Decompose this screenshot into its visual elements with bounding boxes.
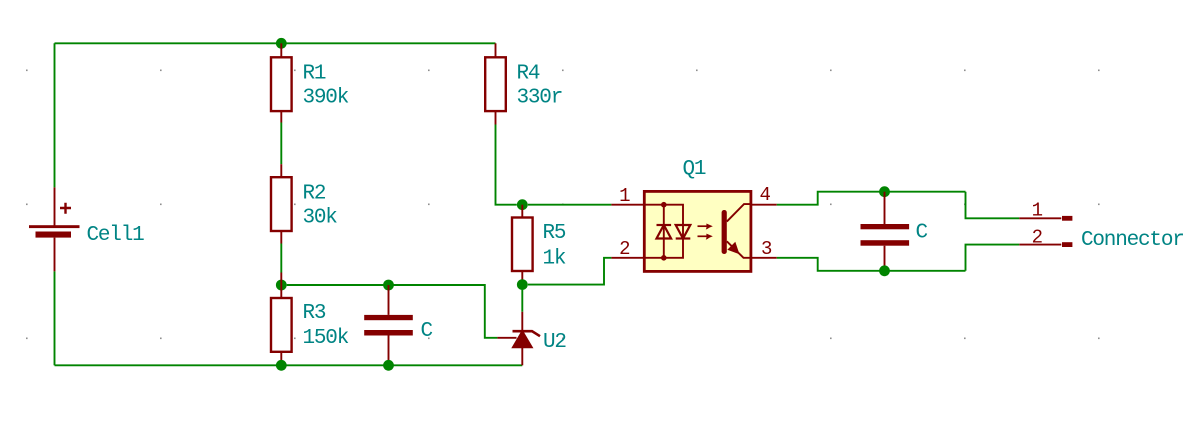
resistor R4 <box>485 43 562 124</box>
wire node A to opto pin1 <box>528 204 612 206</box>
svg-text:1: 1 <box>619 185 630 207</box>
LED D2 (down) <box>676 225 691 239</box>
resistor R3 <box>271 285 349 371</box>
wire left rail battery top <box>54 43 56 187</box>
svg-text:4: 4 <box>760 184 771 206</box>
wire C2 bottom to connector pin2 <box>966 245 1020 271</box>
wire bottom bus <box>55 364 523 366</box>
svg-text:3: 3 <box>761 238 772 260</box>
svg-text:2: 2 <box>619 238 630 260</box>
body box <box>644 191 751 271</box>
pin 1 lead <box>1019 217 1061 219</box>
svg-text:R5: R5 <box>543 222 566 245</box>
junction node top of R1 <box>276 38 287 49</box>
pin 2 lead <box>611 257 644 259</box>
connector J1 <box>1019 200 1183 252</box>
svg-text:Q1: Q1 <box>683 158 706 181</box>
junction node B (R5 bottom) <box>517 279 528 290</box>
svg-text:Cell1: Cell1 <box>87 224 145 247</box>
phototransistor <box>722 210 727 254</box>
svg-text:R4: R4 <box>517 63 540 86</box>
capacitor C (right) <box>861 192 928 271</box>
wire opto pin4 to C2 top <box>777 192 966 205</box>
battery Cell1 <box>29 187 144 271</box>
LED pair wires <box>644 205 683 258</box>
junction node R2-R3 <box>276 280 287 291</box>
svg-text:R3: R3 <box>303 302 326 325</box>
junction node C2 top <box>879 186 890 197</box>
pin 4 lead <box>751 204 777 206</box>
resistor R1 <box>271 43 349 122</box>
optocoupler Q1 <box>611 158 776 271</box>
svg-text:330r: 330r <box>517 87 563 110</box>
LED D1 (up) <box>657 224 672 226</box>
resistor R5 <box>512 205 566 285</box>
wire mid row to U2 ref <box>287 285 498 338</box>
pin 2 lead <box>1019 244 1061 246</box>
svg-text:C: C <box>421 320 433 343</box>
wire R1 to R2 <box>280 123 282 165</box>
junction node C1 top <box>383 280 394 291</box>
wire left rail battery bottom <box>54 271 56 365</box>
svg-text:Connector: Connector <box>1081 229 1184 252</box>
light arrow 1 <box>698 225 709 227</box>
capacitor C (left) <box>364 285 432 365</box>
junction node C2 bottom <box>879 265 890 276</box>
junction node C1 bottom <box>383 360 394 371</box>
wire top bus <box>55 42 496 44</box>
svg-text:1k: 1k <box>543 248 566 271</box>
svg-text:390k: 390k <box>303 87 349 110</box>
svg-text:R2: R2 <box>303 182 326 205</box>
light arrow 2 <box>698 235 709 237</box>
wire opto pin3 to C2 bottom <box>777 258 966 271</box>
pin 1 lead <box>611 204 644 206</box>
wire node B to opto pin2 <box>528 258 612 285</box>
svg-text:30k: 30k <box>303 206 338 229</box>
wire R4 to node A <box>496 125 517 205</box>
wire R2 to junction <box>280 244 282 273</box>
svg-text:150k: 150k <box>303 327 349 350</box>
pin 3 lead <box>751 257 777 259</box>
wire node B to U2 cathode <box>521 290 523 312</box>
junction node A (R5 top) <box>517 199 528 210</box>
wire C2 top to connector pin1 <box>966 192 1020 219</box>
svg-text:U2: U2 <box>543 331 566 354</box>
svg-text:C: C <box>916 221 928 244</box>
resistor R2 <box>271 164 337 243</box>
svg-text:R1: R1 <box>303 63 326 86</box>
svg-text:1: 1 <box>1032 200 1043 222</box>
svg-text:2: 2 <box>1032 227 1043 249</box>
shunt regulator U2 <box>497 312 566 366</box>
